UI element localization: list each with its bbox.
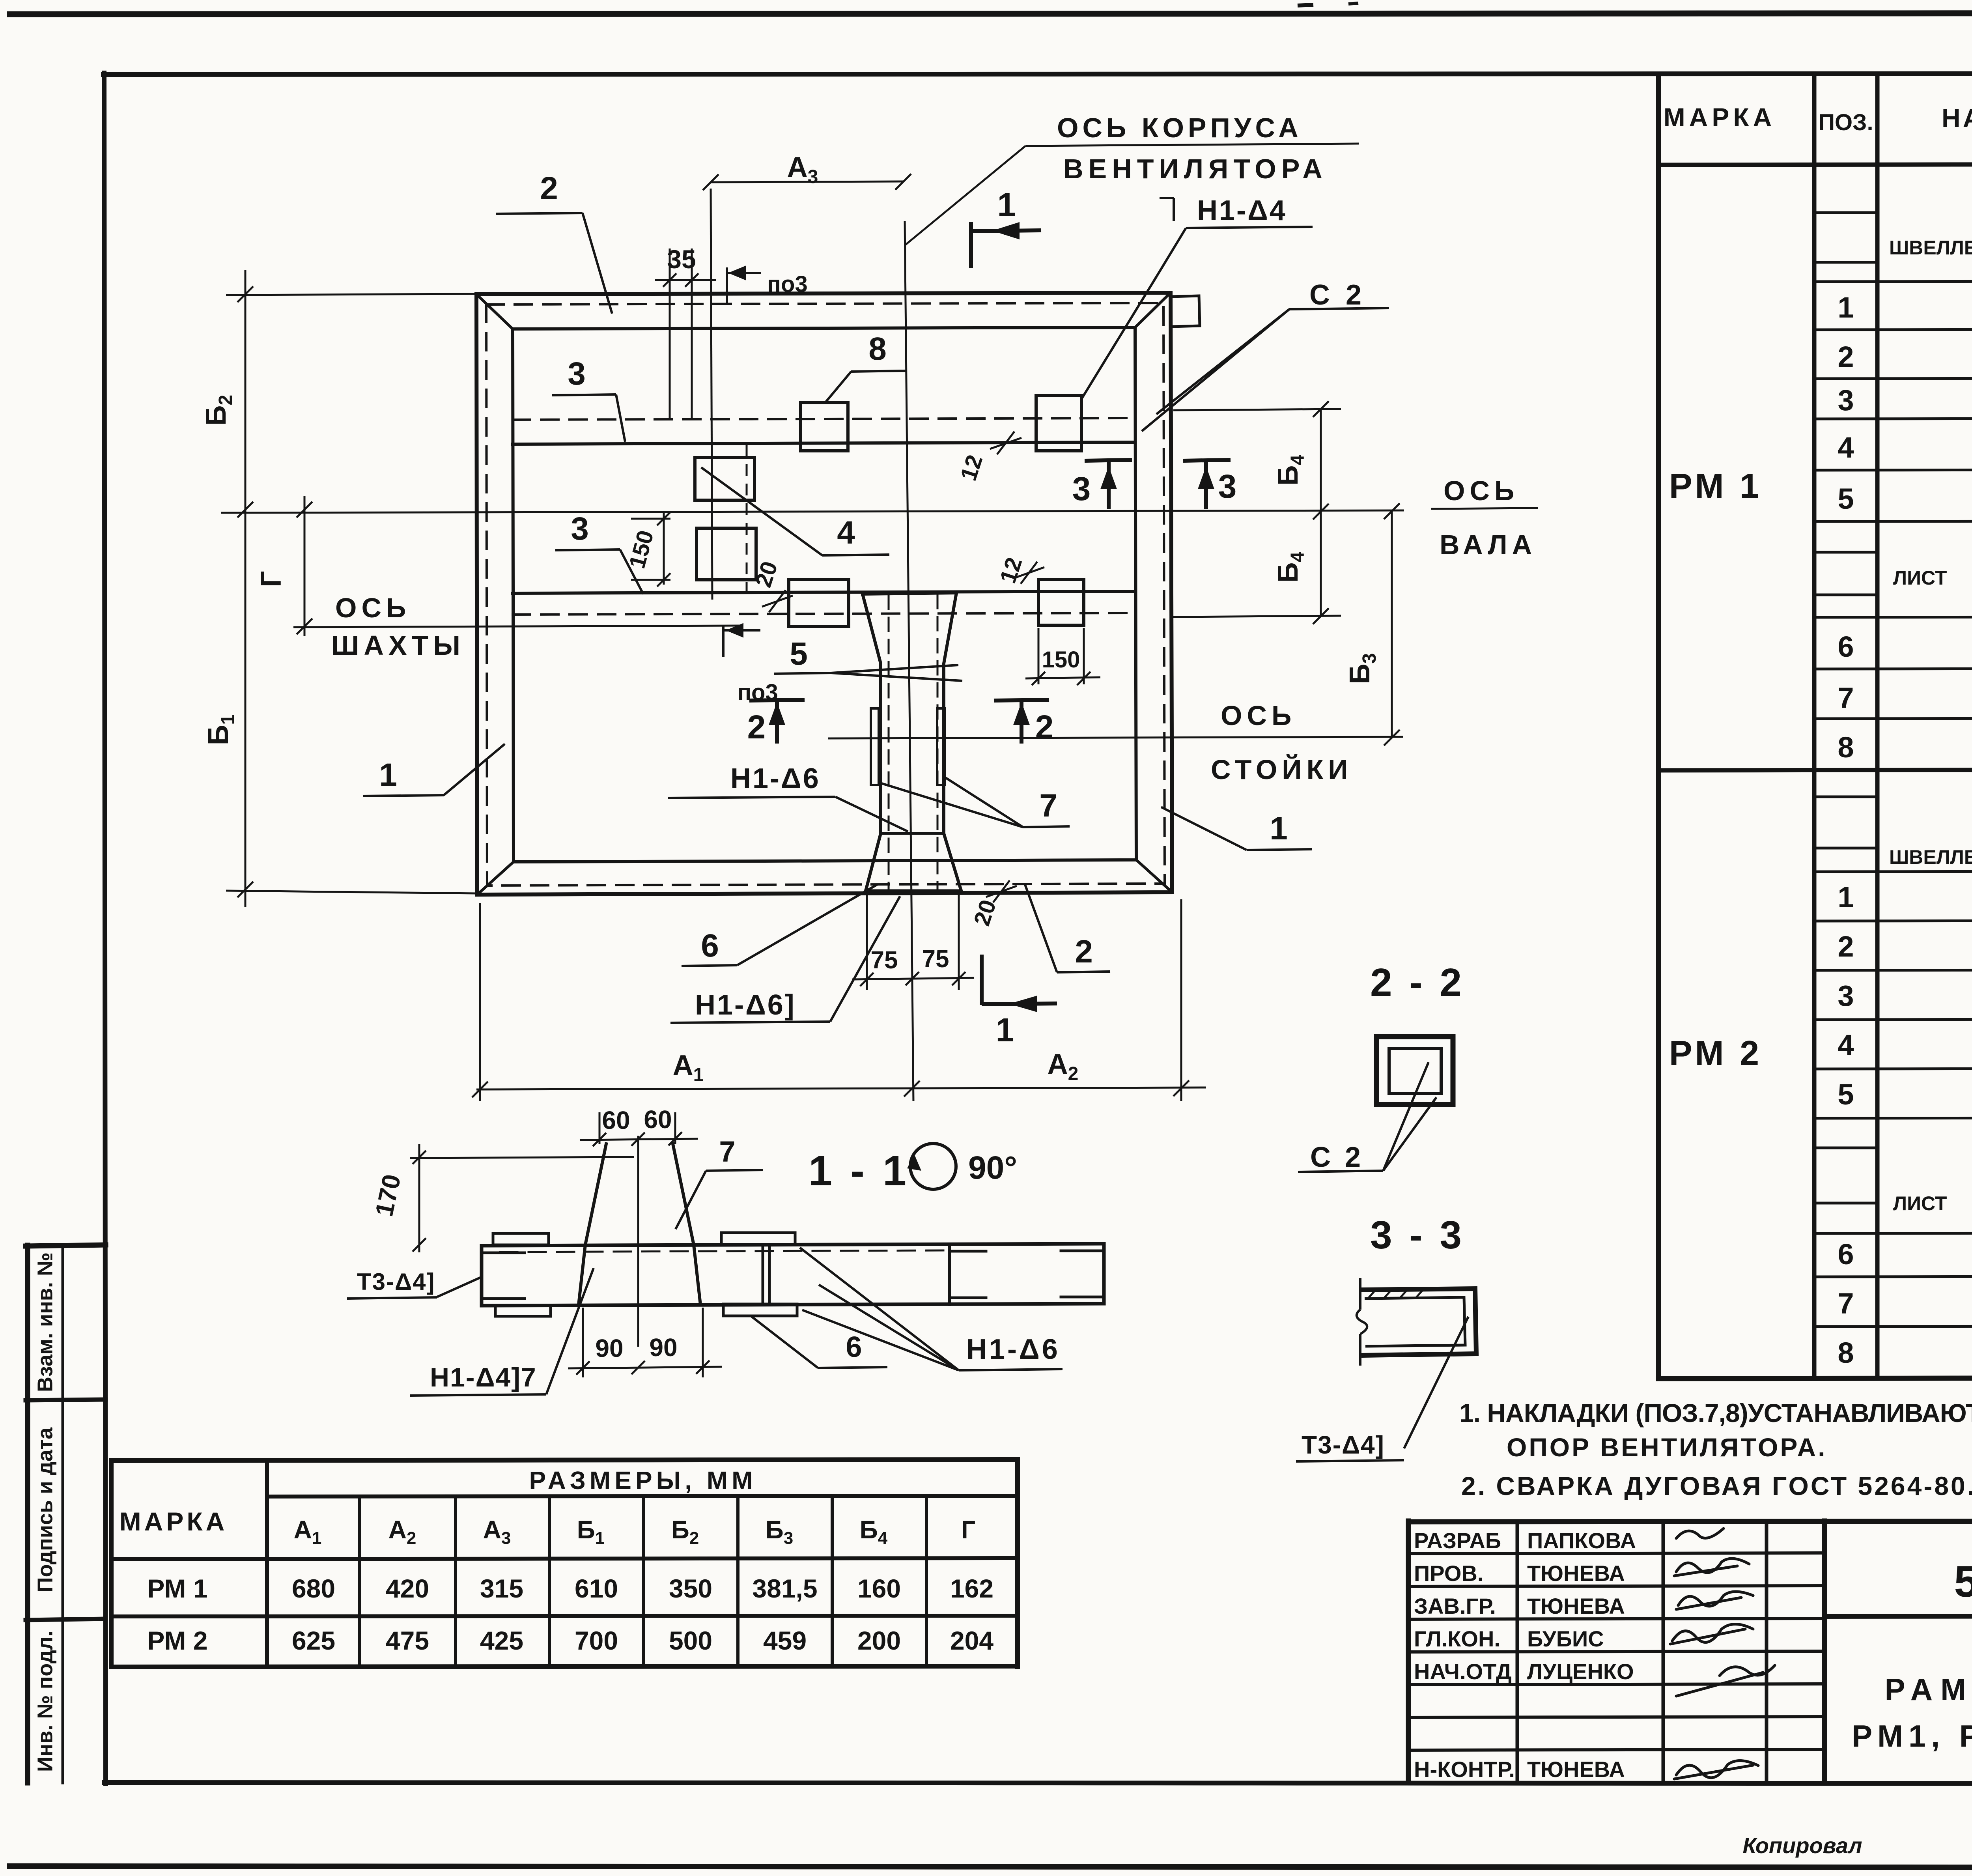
PM1 row lines <box>1814 213 1972 719</box>
svg-text:150: 150 <box>1042 647 1080 673</box>
svg-text:90: 90 <box>595 1334 623 1362</box>
frame left <box>104 73 106 1784</box>
svg-text:4: 4 <box>1838 431 1854 464</box>
section 3 marks <box>1085 460 1132 461</box>
position leaders & labels on plan <box>363 198 1389 1023</box>
svg-text:С 2: С 2 <box>1309 279 1365 311</box>
PM2 row lines <box>1814 797 1972 1327</box>
frame bottom <box>104 1783 1972 1784</box>
axis of shaft (os vala) <box>221 510 1404 513</box>
svg-text:75: 75 <box>871 947 898 974</box>
svg-text:РМ1, РМ 2: РМ1, РМ 2 <box>1852 1719 1972 1753</box>
svg-text:7: 7 <box>719 1135 735 1168</box>
section 1 bottom <box>980 955 984 1005</box>
svg-text:162: 162 <box>950 1574 993 1603</box>
B4 dim line <box>1320 409 1322 616</box>
svg-text:ЛИСТ: ЛИСТ <box>1893 567 1947 589</box>
svg-text:8: 8 <box>868 331 887 367</box>
svg-text:2: 2 <box>1838 340 1854 373</box>
corner miters <box>476 294 513 329</box>
svg-text:90°: 90° <box>968 1150 1017 1186</box>
170 dim <box>418 1144 420 1252</box>
left end channel flanges <box>482 1252 525 1254</box>
svg-text:315: 315 <box>480 1574 523 1603</box>
page bottom border <box>10 1866 1972 1868</box>
svg-text:1: 1 <box>997 186 1016 223</box>
svg-text:МАРКА: МАРКА <box>120 1507 228 1536</box>
svg-text:4: 4 <box>1838 1029 1854 1061</box>
svg-text:8: 8 <box>1838 731 1854 764</box>
label 2 bottom <box>1057 972 1110 972</box>
A3 dim line <box>711 181 903 182</box>
svg-text:8: 8 <box>1838 1336 1854 1369</box>
label 7 section <box>706 1170 763 1171</box>
column trapezoid <box>579 1144 606 1305</box>
svg-text:2: 2 <box>1075 934 1093 970</box>
svg-text:Подпись и дата: Подпись и дата <box>33 1427 57 1592</box>
label 1 left <box>363 795 444 796</box>
left margin boxes <box>26 1245 106 1783</box>
beam poz3 upper: solid edge <box>513 442 1135 444</box>
signatures (squiggles) <box>1670 1528 1775 1779</box>
A3 extension vertical <box>711 189 712 600</box>
top plates <box>493 1233 549 1245</box>
svg-text:381,5: 381,5 <box>752 1574 817 1603</box>
label 3 lower beam <box>555 549 620 550</box>
svg-text:204: 204 <box>950 1626 993 1655</box>
PM1 items <box>1838 291 1972 764</box>
svg-text:ТЮНЕВА: ТЮНЕВА <box>1527 1757 1625 1782</box>
svg-text:1: 1 <box>996 1011 1014 1048</box>
svg-text:5: 5 <box>1838 1078 1854 1111</box>
svg-text:С 2: С 2 <box>1310 1142 1364 1173</box>
stand (stoyka) poz 5 <box>863 593 961 891</box>
section 1 top <box>969 222 973 268</box>
svg-text:60: 60 <box>644 1105 672 1134</box>
svg-text:Копировал: Копировал <box>1742 1833 1862 1858</box>
svg-text:3: 3 <box>1218 468 1237 505</box>
G dim line <box>304 496 306 636</box>
svg-text:3: 3 <box>571 511 589 547</box>
svg-text:5: 5 <box>790 636 808 672</box>
svg-text:1: 1 <box>1270 811 1288 846</box>
axis of mine (os shakhty) <box>293 626 740 627</box>
svg-text:РАМА: РАМА <box>1885 1672 1972 1707</box>
label 5 <box>774 673 831 674</box>
label 3 upper beam <box>552 394 616 395</box>
leader of fan housing axis <box>905 144 1538 509</box>
section 2 marks <box>749 700 805 701</box>
90/90 dim <box>568 1367 722 1368</box>
svg-text:Г: Г <box>256 571 287 587</box>
svg-text:Т3-Δ4]: Т3-Δ4] <box>1302 1431 1385 1459</box>
svg-text:1: 1 <box>1838 881 1854 914</box>
svg-text:90: 90 <box>649 1333 677 1362</box>
svg-text:3 - 3: 3 - 3 <box>1370 1213 1465 1257</box>
flag marks near poz labels <box>723 267 761 657</box>
svg-text:7: 7 <box>1838 1287 1854 1320</box>
svg-text:РМ 2: РМ 2 <box>147 1626 207 1655</box>
svg-text:3: 3 <box>1838 979 1854 1012</box>
table header texts <box>1664 90 1972 154</box>
section labels <box>347 1170 1063 1396</box>
svg-text:ТЮНЕВА: ТЮНЕВА <box>1527 1594 1625 1618</box>
A1/A2 dim line <box>476 1087 1206 1089</box>
svg-text:1 - 1: 1 - 1 <box>809 1147 909 1194</box>
label C2 <box>1289 308 1389 309</box>
poz5 vertical in bar <box>762 1245 764 1305</box>
svg-text:610: 610 <box>575 1574 618 1603</box>
svg-text:6: 6 <box>1838 1238 1854 1271</box>
svg-text:Н1-Δ6: Н1-Δ6 <box>730 763 820 794</box>
svg-text:4: 4 <box>837 515 855 551</box>
svg-text:ШВЕЛЛЕР: ШВЕЛЛЕР <box>1889 237 1972 259</box>
B3 dim line <box>1391 511 1393 738</box>
svg-text:ШАХТЫ: ШАХТЫ <box>331 630 465 661</box>
poz7 side strips <box>871 708 879 785</box>
60/60 dim <box>580 1139 698 1140</box>
svg-text:3: 3 <box>568 356 586 392</box>
svg-text:3: 3 <box>1838 384 1854 417</box>
svg-text:160: 160 <box>857 1574 901 1603</box>
label 6 section <box>818 1367 887 1368</box>
svg-text:459: 459 <box>763 1626 807 1655</box>
svg-text:ОСЬ КОРПУСА: ОСЬ КОРПУСА <box>1057 112 1302 143</box>
label H1-D6] bottom <box>670 1022 830 1023</box>
svg-text:1. НАКЛАДКИ (ПОЗ.7,8)УСТАНАВЛИ: 1. НАКЛАДКИ (ПОЗ.7,8)УСТАНАВЛИВАЮТСЯ ПО … <box>1459 1398 1972 1428</box>
svg-text:ЗАВ.ГР.: ЗАВ.ГР. <box>1414 1594 1496 1618</box>
svg-text:Взам. инв. №: Взам. инв. № <box>33 1252 57 1392</box>
svg-text:РМ 2: РМ 2 <box>1669 1033 1762 1073</box>
svg-text:5.904-56.5-6: 5.904-56.5-6 <box>1954 1557 1972 1606</box>
label H1-D4]7 <box>410 1394 546 1396</box>
svg-text:ПОЗ.: ПОЗ. <box>1818 110 1873 135</box>
svg-text:Н1-Δ6]: Н1-Δ6] <box>695 989 796 1021</box>
svg-text:ЛИСТ: ЛИСТ <box>1893 1192 1947 1215</box>
svg-text:350: 350 <box>669 1574 712 1603</box>
middle channel section <box>948 1245 951 1304</box>
axis of stand (os stoyki) <box>828 737 1403 738</box>
svg-text:625: 625 <box>292 1626 335 1655</box>
svg-text:Инв. № подл.: Инв. № подл. <box>33 1631 57 1772</box>
svg-text:5: 5 <box>1838 482 1854 515</box>
svg-text:420: 420 <box>386 1574 429 1603</box>
75/75 dims <box>852 978 974 979</box>
svg-text:ЛУЦЕНКО: ЛУЦЕНКО <box>1527 1659 1634 1684</box>
svg-text:75: 75 <box>922 945 949 973</box>
svg-text:200: 200 <box>857 1626 901 1655</box>
svg-text:ПРОВ.: ПРОВ. <box>1414 1561 1483 1586</box>
svg-text:ОСЬ: ОСЬ <box>335 592 411 623</box>
right end channel flanges <box>1061 1250 1104 1252</box>
svg-text:475: 475 <box>386 1626 429 1655</box>
svg-text:Г: Г <box>961 1515 975 1544</box>
label H1-D4 top right <box>1173 198 1175 221</box>
svg-text:БУБИС: БУБИС <box>1527 1626 1604 1651</box>
svg-text:2 - 2: 2 - 2 <box>1370 960 1465 1005</box>
svg-text:700: 700 <box>575 1626 618 1655</box>
svg-text:ОСЬ: ОСЬ <box>1221 700 1296 731</box>
weld tick 12 lower right <box>1021 562 1037 584</box>
svg-text:Н-КОНТР.: Н-КОНТР. <box>1414 1757 1515 1782</box>
label H1-D6 section: three leaders <box>959 1369 1063 1370</box>
svg-text:Н1-Δ6: Н1-Δ6 <box>966 1334 1060 1365</box>
column centerline <box>637 1137 639 1346</box>
scan mark top center <box>1298 5 1313 6</box>
PM2 channel header <box>1889 796 1972 1221</box>
beam poz3 lower: hidden edge <box>513 613 1135 615</box>
fan housing axis vertical <box>905 221 913 1101</box>
PM2 items <box>1838 881 1972 1369</box>
bottom plates <box>495 1305 551 1316</box>
svg-text:7: 7 <box>1838 682 1854 714</box>
label 6 plan <box>682 965 737 966</box>
plan view: frame outer rect <box>476 293 1200 895</box>
section 1-1 dims <box>410 1112 722 1377</box>
svg-text:7: 7 <box>1039 788 1057 824</box>
svg-text:Т3-Δ4]: Т3-Δ4] <box>357 1269 435 1295</box>
svg-text:60: 60 <box>602 1106 630 1134</box>
label 2 top-left <box>496 213 583 214</box>
beam poz3 upper: hidden edge <box>513 418 1135 420</box>
leader T3-D4] <box>1404 1317 1468 1448</box>
svg-text:ОСЬ: ОСЬ <box>1444 475 1519 506</box>
hidden center dash <box>500 1250 947 1252</box>
svg-text:Н1-Δ4]7: Н1-Δ4]7 <box>430 1362 537 1392</box>
svg-text:СТОЙКИ: СТОЙКИ <box>1211 754 1353 785</box>
svg-text:РАЗМЕРЫ, ММ: РАЗМЕРЫ, ММ <box>529 1466 757 1495</box>
svg-text:ТЮНЕВА: ТЮНЕВА <box>1527 1561 1625 1586</box>
150 left dim <box>663 513 665 585</box>
dimension lines <box>226 174 1400 1101</box>
svg-text:ШВЕЛЛЕР: ШВЕЛЛЕР <box>1889 846 1972 868</box>
rotation circle <box>910 1144 956 1189</box>
svg-text:2. СВАРКА ДУГОВАЯ ГОСТ 5264-: 2. СВАРКА ДУГОВАЯ ГОСТ 5264-80. <box>1461 1471 1972 1500</box>
svg-text:Н1-Δ4: Н1-Δ4 <box>1197 195 1287 226</box>
svg-text:МАРКА: МАРКА <box>1664 103 1776 132</box>
axis labels <box>331 112 1537 785</box>
svg-text:РМ 1: РМ 1 <box>147 1574 207 1603</box>
hatches on top edge <box>1369 1290 1376 1298</box>
svg-text:2: 2 <box>540 170 558 206</box>
svg-text:2: 2 <box>1035 708 1054 746</box>
svg-text:6: 6 <box>846 1330 862 1363</box>
svg-text:РМ 1: РМ 1 <box>1669 466 1762 505</box>
frame inner rect <box>513 327 1136 862</box>
svg-text:ПАПКОВА: ПАПКОВА <box>1527 1528 1636 1553</box>
svg-text:РАЗРАБ: РАЗРАБ <box>1414 1528 1501 1553</box>
svg-text:3: 3 <box>1072 470 1091 507</box>
title block grid <box>1408 1521 1972 1783</box>
os vala underline <box>1431 508 1538 509</box>
label T3-D4] left <box>347 1297 437 1299</box>
svg-text:6: 6 <box>701 928 719 964</box>
svg-text:НАИМЕНОВАНИЕ: НАИМЕНОВАНИЕ <box>1942 103 1972 133</box>
svg-text:ВАЛА: ВАЛА <box>1440 529 1537 560</box>
specification table grid <box>1658 74 1972 1783</box>
svg-text:ВЕНТИЛЯТОРА: ВЕНТИЛЯТОРА <box>1063 153 1328 184</box>
svg-text:ОПОР ВЕНТИЛЯТОРА.: ОПОР ВЕНТИЛЯТОРА. <box>1507 1433 1827 1462</box>
B1+B2 dim line <box>245 270 246 907</box>
svg-text:425: 425 <box>480 1626 523 1655</box>
title block left column texts <box>1414 1528 1636 1782</box>
page top border <box>10 13 1972 14</box>
svg-text:680: 680 <box>292 1574 335 1603</box>
150 right dim <box>1025 677 1100 678</box>
dashed vertical along plates poz4 <box>746 444 748 593</box>
svg-text:500: 500 <box>669 1626 712 1655</box>
svg-text:по3: по3 <box>767 271 808 297</box>
section marks <box>749 222 1231 1012</box>
weld tick 12 upper right <box>997 432 1014 454</box>
35 dim <box>655 279 716 281</box>
axis lines <box>221 189 1404 1101</box>
svg-text:2: 2 <box>747 708 766 746</box>
svg-text:1: 1 <box>1838 291 1854 324</box>
label H1-D6 plan <box>668 797 835 798</box>
weld tick 20 lower left <box>769 590 786 612</box>
svg-text:35: 35 <box>667 245 696 274</box>
beam poz3 lower: solid edge <box>513 591 1135 593</box>
overlay plates poz 8 on beams <box>695 396 1084 626</box>
dimensions table (bottom left) grid <box>111 1459 1018 1667</box>
svg-text:6: 6 <box>1838 630 1854 663</box>
label 1 right <box>1247 849 1312 850</box>
label 7 <box>1023 826 1070 827</box>
plates poz 4 <box>695 458 754 500</box>
svg-text:2: 2 <box>1838 930 1854 963</box>
label 8 <box>851 371 907 372</box>
hidden dashed rect <box>486 303 1165 886</box>
dimension texts of plan <box>200 151 1380 1086</box>
PM1 channel header <box>1889 187 1972 610</box>
svg-text:1: 1 <box>379 757 397 793</box>
weld tick 20 bottom <box>993 880 1010 902</box>
svg-text:НАЧ.ОТД: НАЧ.ОТД <box>1414 1659 1512 1684</box>
svg-text:ГЛ.КОН.: ГЛ.КОН. <box>1414 1626 1500 1651</box>
frame top <box>103 73 1972 75</box>
label 4 <box>822 555 889 555</box>
top-right notch <box>1171 296 1200 327</box>
bar outline <box>482 1244 1104 1246</box>
